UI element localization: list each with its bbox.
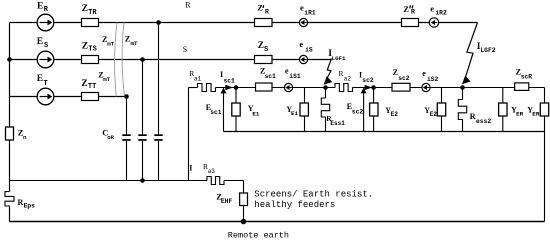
svg-text:S: S [264,46,268,54]
svg-text:Z: Z [82,42,88,52]
svg-text:sc1: sc1 [224,78,236,85]
svg-text:Screens/ Earth resist.: Screens/ Earth resist. [254,190,373,200]
svg-text:Z: Z [81,79,87,89]
svg-text:healthy feeders: healthy feeders [254,200,335,210]
svg-text:S: S [44,42,48,50]
svg-text:ess2: ess2 [476,118,491,125]
svg-text:E2: E2 [391,111,399,118]
svg-text:Z: Z [257,3,263,13]
svg-text:iS1: iS1 [289,73,301,80]
svg-text:e: e [299,39,303,49]
svg-text:sc1: sc1 [265,73,277,80]
svg-text:sc2: sc2 [398,75,410,82]
svg-text:mT: mT [131,40,138,47]
svg-text:Z: Z [125,34,130,43]
svg-text:E: E [37,74,43,84]
svg-text:e: e [422,69,426,78]
svg-text:Eps: Eps [24,202,36,209]
svg-text:R: R [470,112,476,121]
svg-text:Ess1: Ess1 [330,120,345,127]
svg-text:E1: E1 [291,110,298,117]
svg-text:Z: Z [403,4,409,14]
svg-text:LGF2: LGF2 [480,47,495,54]
svg-text:TT: TT [88,83,96,91]
svg-text:Z: Z [393,68,398,77]
svg-text:Z: Z [258,41,264,51]
svg-text:R: R [18,198,24,207]
svg-text:a3: a3 [208,168,216,175]
svg-text:E: E [37,37,43,47]
svg-text:a2: a2 [344,75,352,82]
svg-text:EHF: EHF [221,198,233,205]
svg-text:R: R [411,9,415,16]
svg-text:LGF1: LGF1 [332,55,346,62]
svg-text:ER: ER [516,111,524,118]
svg-text:scR: scR [521,74,533,81]
svg-text:mT: mT [103,76,110,83]
svg-text:iS: iS [305,46,313,53]
svg-text:sc2: sc2 [352,108,364,115]
svg-text:iR1: iR1 [304,10,316,17]
svg-text:E2: E2 [430,111,438,118]
svg-text:ER: ER [532,111,540,118]
svg-text:TS: TS [88,46,96,54]
svg-text:I: I [189,164,192,173]
svg-text:oR: oR [107,134,114,141]
svg-text:R: R [339,69,344,78]
svg-text:S: S [183,45,187,54]
svg-text:sc2: sc2 [362,77,374,84]
svg-text:sc1: sc1 [210,109,222,116]
svg-text:iS2: iS2 [427,76,439,83]
svg-text:E1: E1 [252,110,259,117]
svg-text:TR: TR [88,9,97,17]
svg-text:R: R [265,9,269,16]
svg-text:e: e [430,3,434,13]
svg-text:T: T [44,80,48,88]
svg-text:n: n [23,134,27,141]
svg-text:a1: a1 [194,75,202,82]
svg-text:Z: Z [82,4,88,14]
svg-text:Remote earth: Remote earth [228,231,289,241]
svg-text:iR2: iR2 [435,10,447,17]
svg-text:E: E [37,2,43,12]
svg-text:mT: mT [107,41,114,48]
svg-text:R: R [185,1,191,10]
